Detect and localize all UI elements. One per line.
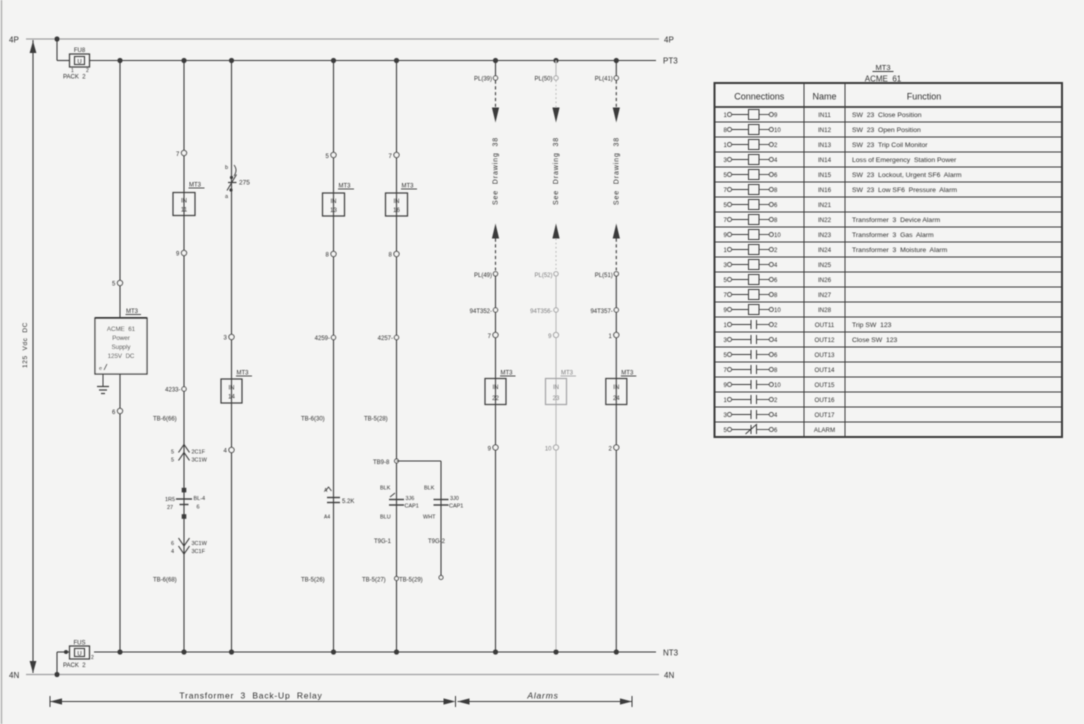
svg-text:TB-5(28): TB-5(28) [364, 417, 388, 423]
junction NT3 [553, 649, 558, 654]
wire ground lead [102, 374, 104, 386]
svg-text:OUT11: OUT11 [815, 322, 835, 329]
svg-text:BLK: BLK [380, 486, 391, 492]
relay input IN 23 [546, 379, 567, 405]
wire lower [555, 276, 557, 652]
table row IN15 [715, 181, 1063, 183]
wire dashed to drawing 38 [615, 81, 617, 109]
svg-text:PL(39): PL(39) [474, 77, 492, 83]
svg-text:NT3: NT3 [663, 649, 679, 658]
table row IN14 [715, 166, 1063, 168]
relay input IN 24 [606, 379, 627, 405]
svg-text:SW 23 Lockout, Urgent SF6 A: SW 23 Lockout, Urgent SF6 Alarm [852, 172, 962, 179]
svg-text:125V DC: 125V DC [108, 353, 135, 360]
fuse FU5 bottom [70, 646, 90, 659]
junction NT3 branch1 [117, 649, 122, 654]
arrow up [613, 224, 620, 239]
svg-text:Function: Function [907, 92, 942, 102]
svg-text:4257-: 4257- [378, 336, 393, 342]
svg-text:IN11: IN11 [818, 112, 831, 119]
wire branch5 [396, 61, 398, 653]
svg-text:Transformer 3 Device Alarm: Transformer 3 Device Alarm [852, 217, 940, 224]
wire branch1 [119, 61, 121, 653]
svg-text:OUT16: OUT16 [815, 397, 836, 404]
connector chevrons down [179, 538, 190, 546]
relay input IN 22 [485, 379, 506, 405]
svg-text:4259-: 4259- [315, 336, 330, 342]
wire lower [495, 276, 497, 652]
arrow down at 4N [30, 661, 37, 673]
wire branch2 [183, 61, 185, 653]
svg-text:3C1W: 3C1W [192, 541, 208, 547]
svg-text:SW 23 Close Position: SW 23 Close Position [852, 112, 922, 119]
svg-text:10: 10 [774, 383, 781, 389]
svg-text:SW 23 Low SF6 Pressure Ala: SW 23 Low SF6 Pressure Alarm [852, 187, 957, 194]
svg-text:10: 10 [774, 233, 781, 239]
table MT3 connection list [715, 83, 1063, 437]
arrow up [552, 224, 559, 239]
svg-text:1: 1 [71, 68, 74, 74]
junction NT3 branch4 [331, 649, 336, 654]
svg-text:10: 10 [774, 128, 781, 134]
ground [97, 386, 109, 388]
connector chevrons up [179, 445, 190, 453]
node 4N bottom rail [26, 674, 659, 676]
junction fuse pin1 [64, 650, 68, 654]
svg-text:OUT17: OUT17 [815, 412, 836, 419]
node 4P top rail [26, 38, 659, 40]
junction PT3 [614, 58, 619, 63]
svg-text:MT3: MT3 [876, 63, 891, 72]
wire stub [495, 61, 497, 77]
svg-text:2C1F: 2C1F [192, 450, 206, 456]
table row OUT12 [715, 346, 1063, 348]
wire fuse to 4N [57, 651, 69, 653]
table row IN26 [715, 286, 1063, 288]
svg-text:Transformer 3 Gas Alarm: Transformer 3 Gas Alarm [852, 232, 934, 239]
svg-text:U: U [77, 652, 81, 658]
svg-text:4P: 4P [9, 36, 19, 45]
svg-text:IN: IN [394, 199, 400, 205]
svg-text:4: 4 [171, 549, 174, 555]
junction 4P/fuse [54, 36, 59, 41]
wire capacitor branch top [397, 460, 442, 462]
svg-text:IN24: IN24 [818, 247, 832, 254]
svg-text:5.2K: 5.2K [342, 499, 354, 505]
svg-text:IN: IN [331, 199, 337, 205]
wire stub [615, 61, 617, 77]
svg-text:10: 10 [774, 308, 781, 314]
svg-text:2: 2 [91, 655, 94, 661]
svg-text:IN: IN [229, 386, 235, 392]
svg-text:4N: 4N [664, 671, 674, 680]
svg-text:IN: IN [181, 199, 187, 205]
svg-text:IN13: IN13 [818, 142, 832, 149]
svg-text:14: 14 [228, 395, 235, 401]
wire left scan edge [1, 0, 3, 724]
relay input IN 13 [323, 193, 345, 216]
svg-text:Transformer 3 Moisture Alar: Transformer 3 Moisture Alarm [852, 247, 948, 254]
relay input IN 16 [386, 193, 408, 216]
svg-text:IN: IN [553, 385, 559, 391]
svg-text:IN21: IN21 [818, 202, 832, 209]
junction PT3 branch4 [331, 58, 336, 63]
svg-text:2: 2 [86, 68, 89, 74]
table row OUT13 [715, 361, 1063, 363]
svg-text:BLK: BLK [424, 486, 435, 492]
svg-text:125 Vdc DC: 125 Vdc DC [22, 322, 29, 368]
svg-text:PACK 2: PACK 2 [63, 75, 86, 81]
svg-text:PACK 2: PACK 2 [63, 663, 86, 669]
svg-text:IN: IN [493, 385, 499, 391]
svg-text:b: b [225, 165, 228, 171]
svg-text:94T356-: 94T356- [530, 309, 552, 315]
junction NT3 branch2 [181, 649, 186, 654]
table row IN12 [715, 136, 1063, 138]
junction NT3 branch3 [229, 649, 234, 654]
svg-text:See Drawing 38: See Drawing 38 [614, 137, 621, 205]
table row IN16 [715, 196, 1063, 198]
svg-text:TB-6(68): TB-6(68) [153, 578, 177, 584]
table row OUT15 [715, 391, 1063, 393]
svg-text:4N: 4N [9, 671, 19, 680]
svg-text:TB9-8: TB9-8 [373, 460, 390, 466]
junction PT3 [493, 58, 498, 63]
svg-text:IN28: IN28 [818, 307, 832, 314]
svg-text:T9G-2: T9G-2 [428, 539, 446, 545]
table row OUT16 [715, 406, 1063, 408]
svg-text:94T357-: 94T357- [590, 309, 612, 315]
table row IN22 [715, 226, 1063, 228]
table row IN23 [715, 241, 1063, 243]
svg-text:PL(52): PL(52) [534, 273, 552, 279]
svg-text:Alarms: Alarms [526, 691, 558, 701]
svg-text:TB-5(29): TB-5(29) [399, 578, 423, 584]
dimension Alarms [458, 701, 633, 703]
svg-text:ALARM: ALARM [814, 427, 835, 434]
arrow down [613, 108, 620, 123]
svg-text:22: 22 [492, 396, 499, 402]
svg-text:TB-6(66): TB-6(66) [153, 417, 177, 423]
svg-text:FU8: FU8 [74, 48, 86, 54]
svg-text:WHT: WHT [423, 515, 436, 521]
svg-text:1R5: 1R5 [165, 497, 175, 503]
svg-text:OUT13: OUT13 [815, 352, 836, 359]
svg-text:94T352-: 94T352- [470, 309, 492, 315]
svg-text:Transformer 3 Back-Up Relay: Transformer 3 Back-Up Relay [179, 691, 322, 701]
svg-text:Close SW 123: Close SW 123 [852, 337, 898, 344]
wire left vertical 125V supply [32, 40, 34, 673]
junction NT3 [493, 649, 498, 654]
table row IN11 [715, 121, 1063, 123]
svg-text:PL(41): PL(41) [595, 77, 613, 83]
arrow down [492, 108, 499, 123]
svg-text:e: e [99, 366, 102, 372]
svg-text:IN16: IN16 [818, 187, 832, 194]
wire lower [615, 276, 617, 652]
junction PT3 [553, 58, 558, 63]
junction 4N/fuse [54, 672, 59, 677]
table row IN13 [715, 151, 1063, 153]
table row OUT17 [715, 421, 1063, 423]
junction PT3 branch5 [394, 58, 399, 63]
svg-text:TB-5(27): TB-5(27) [362, 578, 386, 584]
svg-text:10: 10 [545, 447, 552, 453]
svg-text:OUT12: OUT12 [815, 337, 836, 344]
svg-text:See Drawing 38: See Drawing 38 [493, 137, 500, 205]
svg-text:ACME 61: ACME 61 [107, 326, 136, 333]
wire dashed to drawing 38 [555, 81, 557, 109]
svg-text:IN14: IN14 [818, 157, 832, 164]
wire stub [555, 61, 557, 77]
svg-text:275: 275 [239, 180, 250, 187]
arrow up at 4P [30, 41, 37, 53]
svg-text:SW 23 Open Position: SW 23 Open Position [852, 127, 921, 134]
relay input IN 11 [173, 193, 195, 216]
svg-text:Supply: Supply [112, 344, 132, 351]
fuse FU8 [70, 54, 90, 67]
svg-text:PL(51): PL(51) [595, 273, 613, 279]
arrow down [552, 108, 559, 123]
svg-text:24: 24 [613, 396, 620, 402]
svg-text:PT3: PT3 [663, 57, 678, 66]
junction NT3 branch5 [394, 649, 399, 654]
wire dashed from drawing 38 [555, 239, 557, 271]
wire dashed from drawing 38 [495, 239, 497, 271]
node PT3 rail [90, 60, 657, 62]
svg-text:BL-4: BL-4 [194, 496, 206, 502]
svg-text:IN23: IN23 [818, 232, 832, 239]
svg-text:CAP1: CAP1 [449, 504, 463, 510]
wire dashed from drawing 38 [615, 239, 617, 271]
svg-text:3C1W: 3C1W [192, 458, 208, 464]
svg-text:4P: 4P [664, 36, 674, 45]
table row OUT14 [715, 376, 1063, 378]
svg-text:6: 6 [171, 541, 174, 547]
svg-text:IN12: IN12 [818, 127, 832, 134]
svg-text:11: 11 [181, 208, 188, 214]
svg-text:23: 23 [553, 396, 560, 402]
relay input IN 14 [221, 379, 242, 403]
svg-text:T9G-1: T9G-1 [374, 539, 392, 545]
svg-text:CAP1: CAP1 [405, 504, 419, 510]
svg-text:4233-: 4233- [165, 388, 180, 394]
svg-text:13: 13 [330, 208, 337, 214]
svg-text:3J0: 3J0 [450, 496, 459, 502]
table row IN25 [715, 271, 1063, 273]
svg-text:16: 16 [393, 208, 400, 214]
wire dashed to drawing 38 [495, 81, 497, 109]
svg-text:PL(49): PL(49) [474, 273, 492, 279]
svg-text:5: 5 [171, 450, 174, 456]
node NT3 rail [94, 651, 656, 653]
svg-text:PL(50): PL(50) [534, 77, 552, 83]
svg-text:SW 23 Trip Coil Monitor: SW 23 Trip Coil Monitor [852, 142, 928, 149]
table row OUT11 [715, 331, 1063, 333]
junction NT3 [614, 649, 619, 654]
svg-text:Connections: Connections [734, 92, 785, 102]
svg-text:IN: IN [613, 385, 619, 391]
svg-text:U: U [77, 60, 81, 66]
svg-text:OUT15: OUT15 [815, 382, 836, 389]
svg-text:Loss of Emergency Station Pow: Loss of Emergency Station Power [852, 157, 957, 164]
svg-text:Trip SW 123: Trip SW 123 [852, 322, 892, 329]
svg-text:Name: Name [812, 92, 836, 102]
svg-text:OUT14: OUT14 [815, 367, 836, 374]
junction PT3 branch1 [117, 58, 122, 63]
table row IN28 [715, 316, 1063, 318]
svg-text:BLU: BLU [380, 515, 391, 521]
svg-text:IN26: IN26 [818, 277, 832, 284]
svg-text:TB-6(30): TB-6(30) [301, 417, 325, 423]
svg-text:IN27: IN27 [818, 292, 832, 299]
wire branch4 [333, 61, 335, 653]
svg-text:TB-5(26): TB-5(26) [301, 578, 325, 584]
svg-text:Power: Power [112, 335, 130, 342]
svg-text:3J6: 3J6 [406, 496, 415, 502]
svg-text:See Drawing 38: See Drawing 38 [553, 137, 560, 205]
arrow up [492, 224, 499, 239]
svg-text:IN22: IN22 [818, 217, 832, 224]
dimension Transformer 3 Back-Up Relay [49, 696, 51, 707]
wire fuse drop [56, 39, 58, 61]
svg-text:FUS: FUS [74, 641, 86, 647]
junction PT3 branch3 [229, 58, 234, 63]
table row IN21 [715, 211, 1063, 213]
svg-text:27: 27 [167, 505, 173, 511]
svg-text:5: 5 [171, 458, 174, 464]
svg-text:IN15: IN15 [818, 172, 832, 179]
table row IN24 [715, 256, 1063, 258]
svg-text:A4: A4 [324, 515, 330, 521]
power supply MT3 ACME 61 [95, 318, 147, 374]
wire branch3 [231, 61, 233, 653]
battery BL-4 [182, 488, 187, 493]
svg-text:3C1F: 3C1F [192, 549, 206, 555]
junction PT3 branch2 [181, 58, 186, 63]
table row IN27 [715, 301, 1063, 303]
svg-text:IN25: IN25 [818, 262, 832, 269]
svg-text:6: 6 [197, 505, 200, 511]
